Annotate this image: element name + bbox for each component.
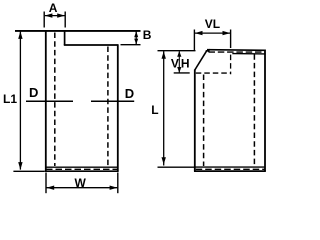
dimension W line xyxy=(47,187,118,189)
left view: right outer edge xyxy=(117,44,119,171)
section line D-D right segment xyxy=(91,100,134,102)
left view: bottom inner solid line xyxy=(46,166,117,168)
dimension A arrow left xyxy=(45,13,53,17)
svg-text:L: L xyxy=(151,103,158,117)
right view: hidden bevel bottom line xyxy=(196,72,231,74)
dimension B line xyxy=(135,32,137,45)
dimension VL arrow left xyxy=(195,31,203,35)
dimension VH bottom extension line xyxy=(174,72,190,74)
dimension L1 arrow down xyxy=(18,162,22,170)
dimension B arrow down xyxy=(134,39,138,45)
left view: bottom outer edge xyxy=(45,170,119,172)
left view: left outer edge xyxy=(45,30,47,172)
dimension VL extension line right xyxy=(230,30,232,49)
dimension L1 line xyxy=(19,32,21,170)
dimension A extension line left xyxy=(43,12,45,28)
right view: hidden bevel right vertical xyxy=(230,55,232,75)
dimension W extension line right xyxy=(117,173,119,194)
dimension VH arrow up xyxy=(177,51,181,57)
dimension L bottom extension line xyxy=(158,166,195,168)
dimension VL line xyxy=(195,32,230,34)
left view: bottom hidden dashed line xyxy=(46,168,117,170)
dimension L top extension line xyxy=(158,50,196,52)
dimension B extension line bottom xyxy=(121,44,141,46)
right view: bottom inner solid line xyxy=(196,166,265,168)
right view: top right short edge line xyxy=(232,53,265,55)
svg-text:D: D xyxy=(29,85,38,100)
left view: hidden line left xyxy=(54,33,56,167)
dimension VH arrow down xyxy=(177,67,181,73)
right view: apex point xyxy=(205,49,209,53)
dimension VL arrow right xyxy=(223,31,231,35)
right view: top solid ridge edge xyxy=(207,49,266,52)
right view: hidden line left xyxy=(203,75,205,167)
svg-text:V: V xyxy=(171,56,179,70)
dimension L line xyxy=(163,51,165,165)
dimension A arrow right xyxy=(57,13,65,17)
dimension W arrow left xyxy=(46,186,54,190)
dimension L1 bottom extension line xyxy=(13,170,44,172)
dimension L1 arrow up xyxy=(18,31,22,39)
dimension VL extension line left xyxy=(193,30,195,51)
right view: top hidden dashed bevel edge xyxy=(209,51,266,53)
left view: step horizontal edge xyxy=(64,44,118,46)
svg-text:A: A xyxy=(49,1,58,15)
right view: left outer edge xyxy=(194,70,196,172)
right view: bottom outer edge xyxy=(194,170,266,172)
left view: step vertical edge xyxy=(64,31,66,46)
svg-text:D: D xyxy=(125,86,134,101)
right view: right outer edge xyxy=(264,50,266,172)
svg-text:L1: L1 xyxy=(3,92,17,106)
right view: hidden line right xyxy=(253,54,255,166)
left view: hidden line right xyxy=(107,47,109,167)
svg-text:W: W xyxy=(75,176,87,190)
svg-text:VL: VL xyxy=(205,17,220,31)
left view: top edge with L1/B extension line xyxy=(15,30,141,32)
dimension L arrow up xyxy=(162,51,166,59)
dimension VH line xyxy=(178,51,180,72)
dimension B arrow up xyxy=(134,31,138,37)
dimension W arrow right xyxy=(110,186,118,190)
svg-text:B: B xyxy=(143,28,152,42)
dimension W extension line left xyxy=(45,173,47,194)
dimension L arrow down xyxy=(162,157,166,164)
dimension A line xyxy=(45,15,65,17)
right view: bevel diagonal edge xyxy=(195,50,207,70)
section line D-D left segment xyxy=(26,100,73,102)
svg-text:H: H xyxy=(181,56,190,70)
dimension A extension line right xyxy=(64,12,66,28)
right view: bottom hidden dashed line xyxy=(196,168,265,170)
